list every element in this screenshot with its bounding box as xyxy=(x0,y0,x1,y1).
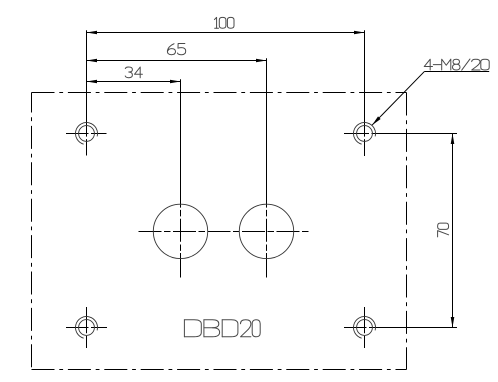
dim text 65 xyxy=(167,44,185,55)
leader line for 4-M8/20 xyxy=(372,72,424,126)
arrowheads dim 100 xyxy=(87,31,98,35)
bolt hole M8 top-left xyxy=(79,126,95,142)
extension/centerline of large port hole 2 xyxy=(266,58,268,207)
large port hole 1 xyxy=(153,204,207,258)
centerline cross, top-right bolt hole xyxy=(344,133,369,135)
plate outline right edge xyxy=(406,93,408,370)
centerline cross, top-left bolt hole xyxy=(66,133,89,135)
arrowheads dim 70 xyxy=(451,134,455,145)
large port hole 2 xyxy=(239,204,293,258)
plate outline xyxy=(32,93,407,370)
dim text 34 xyxy=(125,67,142,78)
plate outline left edge xyxy=(31,93,33,370)
arrowheads dim 65 xyxy=(87,59,98,63)
dimension line 70 xyxy=(452,134,454,328)
bolt hole M8 bottom-right xyxy=(357,320,373,336)
plate outline bottom edge xyxy=(32,369,407,371)
centerline cross, bottom-right bolt hole xyxy=(344,327,367,329)
extension/centerline of large port hole 1 xyxy=(180,79,182,207)
leader arrowhead xyxy=(372,116,381,125)
dimension line 100 xyxy=(87,32,365,34)
dim text 100 xyxy=(214,17,234,28)
centerline cross, bottom-left bolt hole xyxy=(66,327,89,329)
dim text 70 (rotated) xyxy=(438,223,449,237)
bolt hole M8 top-right xyxy=(357,126,373,142)
horizontal centerline through port holes xyxy=(139,231,311,233)
bolt hole M8 bottom-left xyxy=(79,320,95,336)
part label DBD20 xyxy=(184,320,260,337)
plate outline top edge xyxy=(32,92,407,94)
dimension line 65 xyxy=(87,60,267,62)
leader text 4-M8/20 xyxy=(424,59,489,70)
arrowheads dim 34 xyxy=(87,80,98,84)
dimension line 34 xyxy=(87,81,181,83)
